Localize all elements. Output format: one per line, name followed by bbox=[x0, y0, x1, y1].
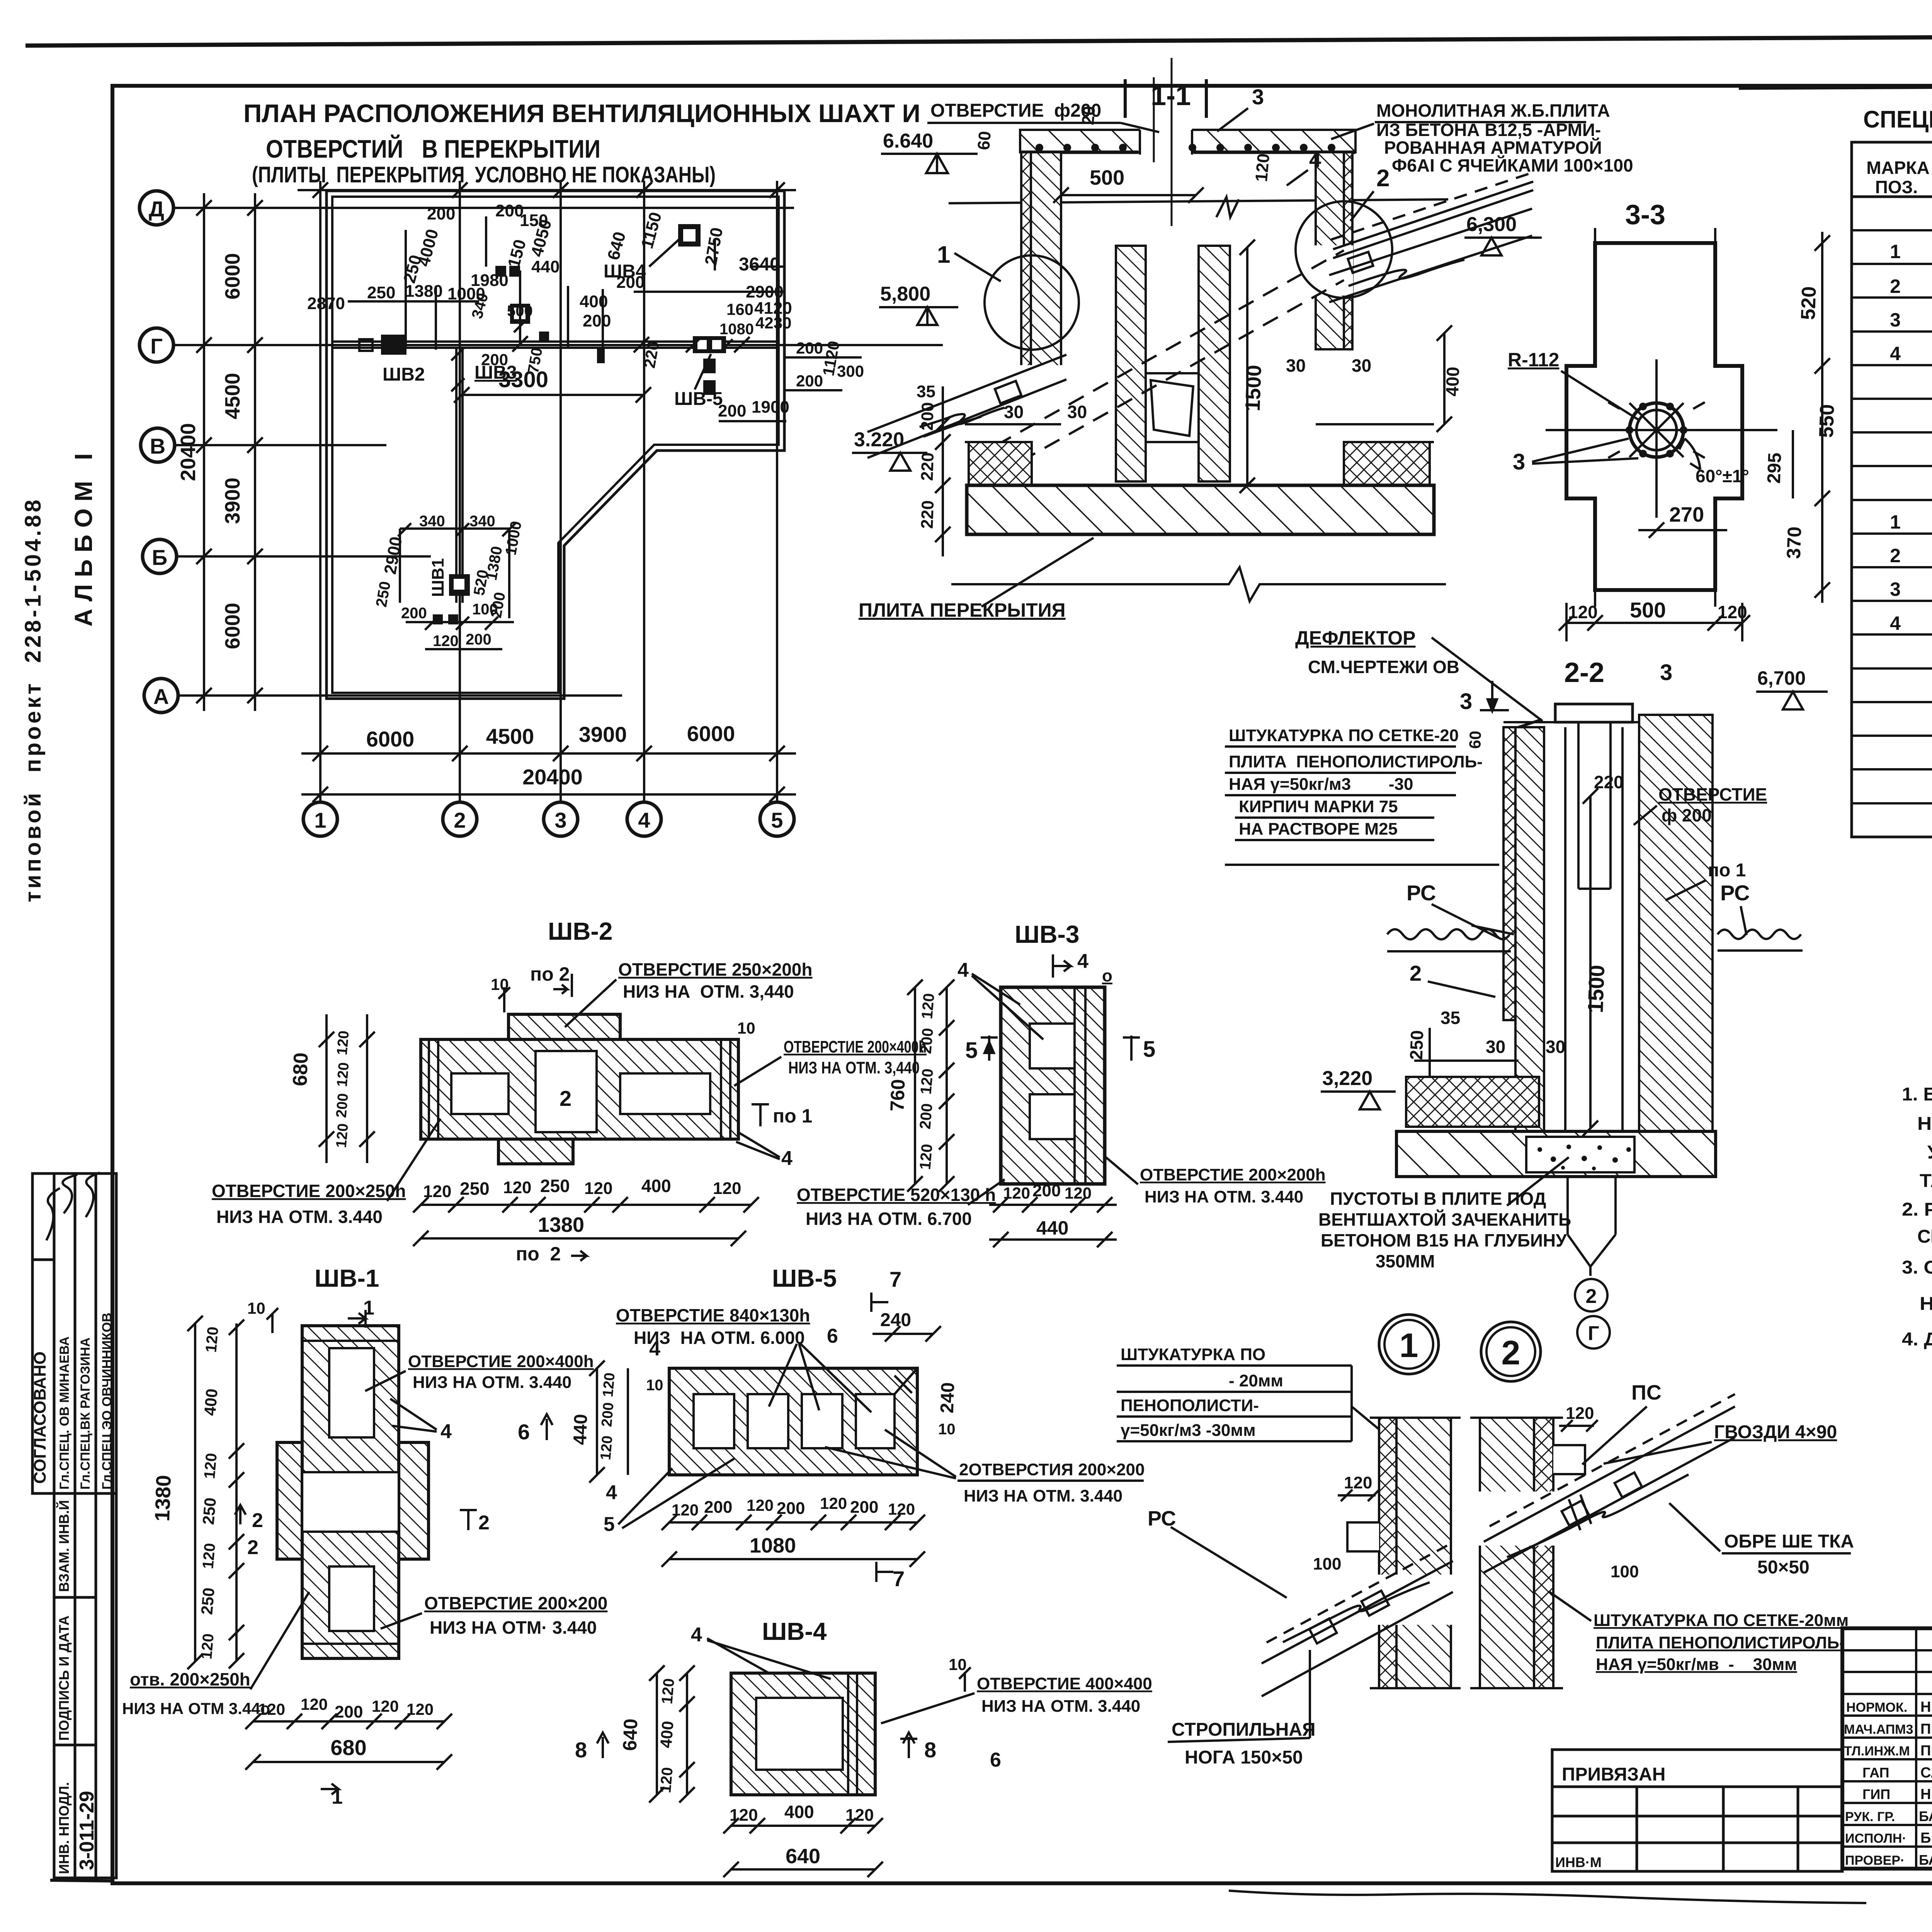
svg-text:5: 5 bbox=[965, 1038, 978, 1063]
svg-text:120: 120 bbox=[845, 1806, 874, 1825]
svg-text:120: 120 bbox=[201, 1452, 220, 1480]
svg-text:120: 120 bbox=[584, 1179, 612, 1198]
svg-text:370: 370 bbox=[1783, 526, 1806, 559]
svg-text:ГИП: ГИП bbox=[1862, 1786, 1890, 1802]
sec1-1 left wall bbox=[1021, 152, 1061, 390]
sec2-2 channel lines bbox=[1544, 715, 1639, 1131]
svg-text:СМ.ЧЕРТЕЖИ ОВ: СМ.ЧЕРТЕЖИ ОВ bbox=[1308, 657, 1459, 677]
svg-text:60: 60 bbox=[1466, 730, 1485, 749]
svg-text:ПРИВЯЗАН: ПРИВЯЗАН bbox=[1562, 1764, 1665, 1785]
svg-text:250: 250 bbox=[197, 1587, 218, 1616]
svg-text:БЕТОНОМ В15 НА ГЛУБИНУ: БЕТОНОМ В15 НА ГЛУБИНУ bbox=[1321, 1230, 1567, 1250]
sec1-1 dashed hidden slope lines bbox=[972, 250, 1344, 489]
svg-text:5,800: 5,800 bbox=[880, 283, 930, 305]
svg-text:6,300: 6,300 bbox=[1466, 213, 1517, 236]
svg-text:7: 7 bbox=[893, 1566, 905, 1591]
sec2-2 left brick wall bbox=[1515, 727, 1544, 1131]
svg-text:1. ВЕНТШАХТЫ ВЫПОЛНЯТЬ ИЗ КИРП: 1. ВЕНТШАХТЫ ВЫПОЛНЯТЬ ИЗ КИРПИЧА ГЛИНЯН… bbox=[1902, 1084, 1932, 1105]
svg-text:6000: 6000 bbox=[221, 603, 244, 649]
svg-text:НЕКЛЮДОВ: НЕКЛЮДОВ bbox=[1920, 1786, 1932, 1803]
svg-text:НИЗ НА ОТМ 3.44о: НИЗ НА ОТМ 3.44о bbox=[122, 1699, 270, 1718]
svg-text:30: 30 bbox=[1486, 1037, 1505, 1057]
svg-text:РС: РС bbox=[1406, 881, 1436, 905]
small opening marks bbox=[433, 266, 716, 624]
svg-text:200: 200 bbox=[796, 372, 823, 390]
axis circles and lines bbox=[139, 191, 178, 713]
svg-text:НОГА 150×50: НОГА 150×50 bbox=[1185, 1747, 1303, 1768]
svg-text:1380: 1380 bbox=[405, 282, 443, 301]
svg-text:6.640: 6.640 bbox=[883, 130, 933, 152]
svg-text:ПИЧУГИН: ПИЧУГИН bbox=[1920, 1721, 1932, 1737]
svg-text:100: 100 bbox=[1611, 1562, 1639, 1581]
svg-text:2. РАЗРЕЗЫ 4-4÷9-9 И ПРОДОЛЖЕН: 2. РАЗРЕЗЫ 4-4÷9-9 И ПРОДОЛЖЕНИЕ СПЕЦИФИ… bbox=[1902, 1199, 1932, 1220]
svg-text:120: 120 bbox=[1252, 153, 1273, 182]
svg-text:3-3: 3-3 bbox=[1625, 199, 1665, 230]
svg-text:ОТВЕРСТИЕ 520×130 h: ОТВЕРСТИЕ 520×130 h bbox=[797, 1185, 996, 1205]
svg-text:400: 400 bbox=[784, 1802, 814, 1822]
svg-text:В: В bbox=[150, 434, 165, 458]
svg-text:ШТУКАТУРКА ПО СЕТКЕ-20мм: ШТУКАТУРКА ПО СЕТКЕ-20мм bbox=[1594, 1611, 1849, 1630]
title block signature columns bbox=[1842, 1628, 1932, 1869]
svg-text:4: 4 bbox=[606, 1481, 617, 1504]
svg-text:по 2: по 2 bbox=[516, 1243, 561, 1265]
svg-text:3640: 3640 bbox=[739, 254, 780, 275]
svg-text:по 1: по 1 bbox=[773, 1105, 812, 1127]
svg-text:по 1: по 1 bbox=[1708, 860, 1746, 881]
detail SHV-3 body bbox=[1001, 987, 1105, 1184]
svg-text:680: 680 bbox=[289, 1052, 313, 1087]
svg-text:20: 20 bbox=[1078, 105, 1099, 126]
sec2-2 top cap bbox=[1503, 704, 1712, 732]
shaft SHV2 mark bbox=[348, 335, 429, 355]
paper crease bbox=[1229, 1891, 1866, 1903]
svg-text:120: 120 bbox=[597, 1435, 616, 1461]
svg-text:4: 4 bbox=[1077, 950, 1088, 973]
column axis lines and circles bbox=[320, 181, 777, 802]
spec table grid bbox=[1852, 142, 1932, 837]
svg-text:120: 120 bbox=[1568, 602, 1598, 622]
svg-text:30: 30 bbox=[1286, 355, 1306, 376]
svg-text:200: 200 bbox=[704, 1498, 732, 1517]
svg-text:500: 500 bbox=[1090, 166, 1124, 189]
detail SHV-2 bottom dims bbox=[413, 1197, 759, 1246]
sec2-2 RS roof right bbox=[1718, 930, 1803, 951]
svg-text:4500: 4500 bbox=[221, 373, 244, 419]
svg-text:3.220: 3.220 bbox=[854, 429, 904, 451]
svg-text:ПОЗ.: ПОЗ. bbox=[1875, 177, 1918, 197]
sec1-1 rafter openings in walls bbox=[1016, 365, 1063, 404]
svg-text:220: 220 bbox=[1594, 772, 1624, 792]
svg-text:НИЗ НА ОТМ. 3.440: НИЗ НА ОТМ. 3.440 bbox=[981, 1697, 1140, 1716]
svg-text:20400: 20400 bbox=[522, 765, 583, 789]
svg-text:120: 120 bbox=[1344, 1473, 1372, 1492]
sec1-1 central opening with flap bbox=[1146, 373, 1199, 442]
svg-text:ШВ2: ШВ2 bbox=[383, 364, 425, 385]
svg-text:ТЛ.ИНЖ.М: ТЛ.ИНЖ.М bbox=[1844, 1744, 1910, 1759]
node1 wall bbox=[1379, 1418, 1451, 1688]
sec2-2 axis circles 2 G bbox=[1575, 1279, 1607, 1311]
svg-text:НИЗ НА ОТМ. 3.440: НИЗ НА ОТМ. 3.440 bbox=[964, 1486, 1122, 1505]
svg-text:ф 200: ф 200 bbox=[1662, 805, 1712, 825]
svg-text:3: 3 bbox=[1890, 309, 1901, 331]
svg-text:ОТВЕРСТИЕ 200×200h: ОТВЕРСТИЕ 200×200h bbox=[1140, 1165, 1326, 1184]
sec1-1 foundation slab bbox=[967, 485, 1434, 534]
svg-text:4. ДЕТАЛИ ПС И РС ПРИМЕНЯТЬ П: 4. ДЕТАЛИ ПС И РС ПРИМЕНЯТЬ ПО ГОСТ 2043… bbox=[1902, 1329, 1932, 1350]
svg-text:ПОДПИСЬ И ДАТА: ПОДПИСЬ И ДАТА bbox=[56, 1616, 72, 1741]
svg-text:3. ОТВЕРСТИЯ В ПЛИТАХ ПЕРЕКРЫТ: 3. ОТВЕРСТИЯ В ПЛИТАХ ПЕРЕКРЫТИЯ ПРОБИТЬ… bbox=[1902, 1257, 1932, 1278]
svg-text:МАЧ.АПМ3: МАЧ.АПМ3 bbox=[1844, 1722, 1913, 1737]
svg-text:120: 120 bbox=[713, 1179, 741, 1198]
svg-text:СОГЛАСОВАНО: СОГЛАСОВАНО bbox=[31, 1351, 49, 1484]
detail SHV-5 body bbox=[669, 1368, 917, 1475]
svg-text:7: 7 bbox=[889, 1267, 901, 1291]
svg-text:60°±1°: 60°±1° bbox=[1696, 466, 1749, 486]
svg-text:240: 240 bbox=[880, 1310, 911, 1330]
svg-text:500: 500 bbox=[507, 303, 533, 320]
svg-text:120: 120 bbox=[600, 1372, 618, 1398]
sec1-1 ceiling line bbox=[949, 197, 1448, 217]
svg-text:250: 250 bbox=[460, 1179, 490, 1199]
svg-text:760: 760 bbox=[886, 1079, 909, 1112]
svg-text:2: 2 bbox=[1586, 1285, 1597, 1308]
svg-text:6: 6 bbox=[827, 1325, 838, 1347]
svg-text:НАЯ γ=50кг/м3 -30: НАЯ γ=50кг/м3 -30 bbox=[1229, 775, 1413, 794]
svg-text:200: 200 bbox=[917, 1103, 936, 1130]
svg-text:2: 2 bbox=[1376, 165, 1389, 192]
svg-text:НОРМОК.: НОРМОК. bbox=[1846, 1700, 1907, 1715]
svg-text:НЕКЛЮДОВ: НЕКЛЮДОВ bbox=[1920, 1699, 1932, 1715]
interior vertical wall axis 2 bbox=[456, 348, 463, 603]
svg-text:440: 440 bbox=[570, 1414, 592, 1446]
svg-text:200: 200 bbox=[599, 1402, 617, 1428]
svg-text:3900: 3900 bbox=[221, 478, 244, 524]
svg-text:35: 35 bbox=[1440, 1008, 1460, 1028]
svg-text:1: 1 bbox=[314, 808, 326, 832]
detail SHV-5 bottom dims bbox=[662, 1515, 925, 1567]
svg-text:2: 2 bbox=[247, 1536, 259, 1559]
sec1-1 ledges and insulation bbox=[965, 424, 1434, 485]
svg-text:ШВ-3: ШВ-3 bbox=[1015, 920, 1079, 948]
svg-text:ОТВЕРСТИЙ В ПЕРЕКРЫТИИ: ОТВЕРСТИЙ В ПЕРЕКРЫТИИ bbox=[266, 134, 600, 163]
svg-text:ПЛИТА ПЕНОПОЛИСТИРОЛЬ-: ПЛИТА ПЕНОПОЛИСТИРОЛЬ- bbox=[1596, 1633, 1845, 1652]
svg-text:340: 340 bbox=[469, 513, 495, 530]
svg-text:СПЕЦИФИКАЦИЯ МАТЕРИАЛА НА ОД: СПЕЦИФИКАЦИЯ МАТЕРИАЛА НА ОДНУ ВЕНТШАХТУ bbox=[1863, 106, 1932, 133]
svg-text:Г: Г bbox=[150, 334, 163, 358]
svg-text:5: 5 bbox=[771, 808, 783, 832]
svg-text:НИЗ НА ОТМ· 3.440: НИЗ НА ОТМ· 3.440 bbox=[430, 1617, 597, 1638]
detail SHV-3 bottom dims bbox=[989, 1197, 1117, 1247]
svg-text:БАРМИНСКАЯ: БАРМИНСКАЯ bbox=[1919, 1808, 1932, 1824]
svg-text:270: 270 bbox=[1669, 503, 1704, 526]
svg-text:200: 200 bbox=[401, 605, 427, 622]
svg-text:4: 4 bbox=[957, 959, 969, 981]
svg-text:Гл.СПЕЦ ЭО ОВЧИННИКОВ: Гл.СПЕЦ ЭО ОВЧИННИКОВ bbox=[100, 1313, 114, 1490]
svg-text:200: 200 bbox=[616, 273, 645, 292]
svg-text:4: 4 bbox=[781, 1147, 793, 1170]
svg-text:120: 120 bbox=[1566, 1404, 1594, 1423]
svg-text:ОТВЕРСТИЕ 200×400h: ОТВЕРСТИЕ 200×400h bbox=[408, 1352, 594, 1371]
svg-text:120: 120 bbox=[1065, 1184, 1092, 1202]
sec2-2 floor slab bbox=[1396, 1131, 1716, 1177]
svg-text:120: 120 bbox=[333, 1123, 351, 1149]
title block outer bbox=[1842, 1628, 1932, 1869]
sec3-3 cross outline bbox=[1566, 243, 1742, 590]
sec1-1 right rafter and sheathing bbox=[1329, 172, 1533, 302]
svg-text:120: 120 bbox=[657, 1767, 676, 1794]
node2 wall bbox=[1480, 1418, 1553, 1688]
svg-text:120: 120 bbox=[301, 1695, 328, 1713]
svg-text:2: 2 bbox=[560, 1086, 571, 1111]
svg-text:250: 250 bbox=[540, 1176, 570, 1196]
svg-text:200: 200 bbox=[850, 1498, 878, 1517]
svg-text:120: 120 bbox=[334, 1062, 352, 1088]
svg-text:4: 4 bbox=[649, 1338, 660, 1360]
svg-text:2: 2 bbox=[1410, 961, 1422, 985]
svg-text:10: 10 bbox=[737, 1019, 755, 1037]
svg-text:БАРМИНСКАЯ: БАРМИНСКАЯ bbox=[1919, 1852, 1932, 1868]
svg-text:1080: 1080 bbox=[719, 321, 754, 338]
svg-text:Д: Д bbox=[149, 197, 164, 221]
sec2-2 RS roof left bbox=[1387, 925, 1514, 951]
shaft SHV4 mark bbox=[678, 224, 701, 247]
detail SHV-4 body bbox=[731, 1673, 875, 1795]
svg-text:ОТВЕРСТИЕ 200×250h: ОТВЕРСТИЕ 200×250h bbox=[212, 1181, 406, 1201]
svg-text:30: 30 bbox=[1546, 1037, 1565, 1057]
svg-text:1380: 1380 bbox=[151, 1475, 175, 1522]
svg-text:3: 3 bbox=[1660, 660, 1672, 685]
sec1-1 break line bbox=[951, 567, 1446, 601]
svg-text:γ=50кг/м3 -30мм: γ=50кг/м3 -30мм bbox=[1121, 1421, 1256, 1440]
privyazan box bbox=[1552, 1750, 1842, 1871]
sec2-2 right massive wall bbox=[1639, 715, 1713, 1131]
svg-text:120: 120 bbox=[433, 633, 459, 650]
sec3-3 right dim chain bbox=[1793, 232, 1830, 603]
svg-text:120: 120 bbox=[747, 1496, 774, 1514]
detail SHV-2 body bbox=[421, 1014, 738, 1164]
svg-text:295: 295 bbox=[1764, 452, 1786, 484]
svg-text:НИЗ НА ОТМ. 3.440: НИЗ НА ОТМ. 3.440 bbox=[216, 1207, 383, 1227]
svg-text:ОТВЕРСТИЕ 840×130h: ОТВЕРСТИЕ 840×130h bbox=[616, 1305, 810, 1325]
svg-text:200: 200 bbox=[427, 204, 455, 223]
svg-text:200: 200 bbox=[1032, 1181, 1061, 1200]
svg-text:6: 6 bbox=[990, 1749, 1001, 1771]
svg-text:ОТВЕРСТИЕ 200×200: ОТВЕРСТИЕ 200×200 bbox=[424, 1593, 607, 1613]
svg-text:120: 120 bbox=[917, 1143, 936, 1170]
svg-text:ПЕНОПОЛИСТИ-: ПЕНОПОЛИСТИ- bbox=[1121, 1396, 1259, 1415]
svg-text:1: 1 bbox=[1400, 1326, 1418, 1364]
svg-text:10: 10 bbox=[938, 1421, 956, 1438]
svg-text:по 2: по 2 bbox=[530, 963, 570, 985]
svg-text:6000: 6000 bbox=[687, 721, 735, 746]
svg-text:2: 2 bbox=[1890, 276, 1901, 297]
svg-text:30: 30 bbox=[1067, 402, 1087, 422]
svg-text:НАЯ γ=50кг/мв - 30мм: НАЯ γ=50кг/мв - 30мм bbox=[1596, 1655, 1797, 1674]
left dimension chain bbox=[196, 193, 263, 711]
shaft SHV1 mark bbox=[449, 574, 470, 596]
svg-text:120: 120 bbox=[202, 1326, 222, 1353]
svg-text:ПС: ПС bbox=[1631, 1381, 1662, 1404]
svg-text:ДЕФЛЕКТОР: ДЕФЛЕКТОР bbox=[1295, 627, 1415, 649]
svg-text:МАРКА: МАРКА bbox=[1866, 158, 1930, 178]
svg-text:30: 30 bbox=[1004, 402, 1024, 422]
svg-text:ГВОЗДИ 4×90: ГВОЗДИ 4×90 bbox=[1714, 1422, 1837, 1442]
building outline outer bbox=[327, 191, 784, 699]
plan extra tick marks and stubs bbox=[298, 182, 862, 649]
svg-text:Гл.СПЕЦ. ОВ МИНАЕВА: Гл.СПЕЦ. ОВ МИНАЕВА bbox=[57, 1337, 72, 1490]
svg-text:3,220: 3,220 bbox=[1322, 1067, 1372, 1090]
svg-text:4: 4 bbox=[638, 808, 650, 832]
svg-text:10: 10 bbox=[646, 1377, 663, 1394]
svg-text:10: 10 bbox=[949, 1655, 967, 1673]
dim 3300 bbox=[462, 394, 643, 396]
svg-text:РУК. ГР.: РУК. ГР. bbox=[1845, 1810, 1895, 1824]
sec1-1 top slab bbox=[1020, 58, 1355, 226]
svg-text:БЕЙМ: БЕЙМ bbox=[1920, 1829, 1932, 1846]
svg-text:120: 120 bbox=[406, 1700, 434, 1718]
sec1-1 callout circles bbox=[985, 255, 1079, 350]
svg-text:200: 200 bbox=[918, 402, 938, 431]
sec2-2 funnel below slab bbox=[1568, 1177, 1616, 1276]
svg-text:440: 440 bbox=[1036, 1217, 1068, 1239]
svg-text:3: 3 bbox=[554, 808, 566, 832]
node callout circle 1 bbox=[1379, 1315, 1439, 1374]
svg-text:4: 4 bbox=[691, 1624, 702, 1646]
svg-text:120: 120 bbox=[1003, 1184, 1030, 1202]
svg-text:200: 200 bbox=[718, 401, 746, 420]
svg-text:640: 640 bbox=[619, 1718, 642, 1751]
svg-text:1: 1 bbox=[1890, 511, 1901, 533]
svg-text:ШВ-4: ШВ-4 bbox=[762, 1617, 827, 1645]
svg-text:120: 120 bbox=[199, 1543, 219, 1570]
svg-text:ПУСТОТЫ В ПЛИТЕ ПОД: ПУСТОТЫ В ПЛИТЕ ПОД bbox=[1330, 1189, 1546, 1209]
page number box 28 bbox=[1739, 38, 1932, 88]
svg-text:50×50: 50×50 bbox=[1757, 1557, 1810, 1578]
node1 rafter bbox=[1262, 1546, 1453, 1696]
svg-text:ПЛИТА ПЕРЕКРЫТИЯ: ПЛИТА ПЕРЕКРЫТИЯ bbox=[859, 599, 1066, 621]
svg-text:РОВАННАЯ АРМАТУРОЙ: РОВАННАЯ АРМАТУРОЙ bbox=[1384, 138, 1602, 158]
svg-text:3: 3 bbox=[1890, 578, 1901, 600]
bottom dimension chain bbox=[301, 746, 796, 802]
svg-text:ОБРЕ ШЕ ТКА: ОБРЕ ШЕ ТКА bbox=[1724, 1531, 1854, 1552]
svg-text:2: 2 bbox=[478, 1512, 490, 1534]
svg-text:САБО: САБО bbox=[1920, 1765, 1932, 1781]
svg-text:КИРПИЧ МАРКИ 75: КИРПИЧ МАРКИ 75 bbox=[1239, 797, 1398, 816]
svg-text:440: 440 bbox=[531, 257, 560, 276]
svg-text:120: 120 bbox=[658, 1678, 678, 1705]
svg-text:2870: 2870 bbox=[307, 294, 345, 313]
svg-text:ИСПОЛН·: ИСПОЛН· bbox=[1845, 1831, 1906, 1846]
svg-text:340: 340 bbox=[419, 513, 445, 530]
signatures squiggles group1 bbox=[46, 1173, 100, 1240]
svg-text:1900: 1900 bbox=[752, 398, 789, 417]
svg-text:120: 120 bbox=[423, 1182, 451, 1201]
svg-text:4500: 4500 bbox=[486, 724, 534, 748]
svg-text:ШВ-2: ШВ-2 bbox=[548, 917, 612, 945]
svg-text:3-011-29: 3-011-29 bbox=[76, 1791, 98, 1870]
svg-text:200: 200 bbox=[583, 311, 611, 330]
svg-text:240: 240 bbox=[937, 1382, 959, 1414]
svg-text:Б: Б bbox=[152, 545, 167, 570]
svg-text:Гл.СПЕЦ.ВК РАГОЗИНА: Гл.СПЕЦ.ВК РАГОЗИНА bbox=[78, 1337, 93, 1490]
svg-text:4: 4 bbox=[440, 1420, 452, 1443]
svg-text:ГАП: ГАП bbox=[1862, 1765, 1889, 1781]
svg-text:АЛЬБОМ I: АЛЬБОМ I bbox=[70, 446, 97, 627]
svg-text:5: 5 bbox=[1143, 1037, 1155, 1062]
detail SHV-1 bottom dims bbox=[245, 1714, 452, 1770]
svg-text:120: 120 bbox=[503, 1178, 531, 1197]
svg-text:3: 3 bbox=[1460, 689, 1472, 714]
svg-text:ОТВЕРСТИЕ ф200: ОТВЕРСТИЕ ф200 bbox=[930, 100, 1101, 121]
svg-text:ОТВЕРСТИЕ 250×200h: ОТВЕРСТИЕ 250×200h bbox=[618, 959, 812, 980]
svg-text:500: 500 bbox=[1630, 598, 1666, 622]
svg-text:ШВ-5: ШВ-5 bbox=[772, 1264, 837, 1292]
sec2-2 insulation block bbox=[1406, 1077, 1539, 1127]
svg-text:120: 120 bbox=[258, 1700, 285, 1718]
node2 rafter opening bbox=[1478, 1492, 1557, 1546]
svg-text:8: 8 bbox=[924, 1738, 936, 1762]
svg-text:ОТВЕРСТИЕ 200×400h: ОТВЕРСТИЕ 200×400h bbox=[784, 1037, 927, 1056]
svg-text:4: 4 bbox=[1890, 343, 1901, 364]
svg-text:2: 2 bbox=[1890, 545, 1901, 566]
svg-text:3: 3 bbox=[1513, 449, 1525, 474]
svg-text:400: 400 bbox=[580, 292, 608, 311]
detail SHV-4 bottom dims bbox=[723, 1818, 883, 1877]
svg-text:250: 250 bbox=[367, 283, 395, 302]
svg-text:300: 300 bbox=[837, 362, 864, 380]
svg-text:2: 2 bbox=[1502, 1333, 1520, 1372]
svg-text:СТРОПИЛЬНАЯ: СТРОПИЛЬНАЯ bbox=[1172, 1719, 1316, 1740]
svg-text:ОТВЕРСТИЕ 400×400: ОТВЕРСТИЕ 400×400 bbox=[977, 1674, 1152, 1693]
svg-text:НИЗ НА ОТМ. 3.440: НИЗ НА ОТМ. 3.440 bbox=[1145, 1187, 1303, 1206]
left stamp table group 1 (soglasovano) bbox=[32, 1173, 116, 1493]
svg-text:2ОТВЕРСТИЯ 200×200: 2ОТВЕРСТИЯ 200×200 bbox=[959, 1460, 1145, 1479]
svg-text:120: 120 bbox=[917, 1068, 937, 1095]
svg-text:Ф6АI С ЯЧЕЙКАМИ 100×100: Ф6АI С ЯЧЕЙКАМИ 100×100 bbox=[1392, 155, 1633, 175]
svg-text:8: 8 bbox=[575, 1738, 587, 1762]
svg-text:2: 2 bbox=[252, 1509, 263, 1532]
interior wall along axis G bbox=[332, 342, 779, 348]
svg-text:250: 250 bbox=[1406, 1030, 1427, 1060]
svg-text:4: 4 bbox=[1309, 147, 1321, 172]
svg-text:5: 5 bbox=[604, 1513, 615, 1536]
svg-text:100: 100 bbox=[1313, 1554, 1341, 1573]
svg-text:680: 680 bbox=[330, 1735, 366, 1760]
svg-text:ИНВ. НПОДЛ.: ИНВ. НПОДЛ. bbox=[56, 1782, 72, 1874]
svg-text:550: 550 bbox=[1815, 404, 1839, 438]
svg-text:1500: 1500 bbox=[1241, 364, 1266, 412]
svg-text:20400: 20400 bbox=[177, 423, 200, 481]
svg-text:120: 120 bbox=[372, 1697, 399, 1715]
svg-text:120: 120 bbox=[334, 1030, 352, 1056]
svg-text:120: 120 bbox=[820, 1494, 847, 1512]
svg-text:ТАМИ γ=50кг/м³ С ПОСЛЕДУЮЩЕЙ Ш: ТАМИ γ=50кг/м³ С ПОСЛЕДУЮЩЕЙ ШТУКАТУРКОЙ… bbox=[1920, 1170, 1932, 1191]
svg-text:ВЗАМ. ИНВ.Й: ВЗАМ. ИНВ.Й bbox=[56, 1500, 72, 1592]
shaft SHV3 mark bbox=[510, 270, 530, 344]
svg-text:200: 200 bbox=[917, 1027, 937, 1054]
svg-text:НЕ НАРУШАЯ НЕСУЩИХ РЕБЕР ПЛИТ.: НЕ НАРУШАЯ НЕСУЩИХ РЕБЕР ПЛИТ. bbox=[1920, 1294, 1932, 1314]
svg-text:Г: Г bbox=[1588, 1322, 1599, 1345]
svg-text:3900: 3900 bbox=[579, 722, 627, 747]
svg-text:4: 4 bbox=[1890, 612, 1901, 634]
svg-text:120: 120 bbox=[672, 1501, 699, 1519]
svg-text:220: 220 bbox=[918, 500, 938, 529]
svg-text:СМ. ЛИСТ 27.: СМ. ЛИСТ 27. bbox=[1917, 1226, 1932, 1247]
svg-text:УТЕПЛИТЬ ПО ПЕРИМЕТРУ ПЕНОПОЛИ: УТЕПЛИТЬ ПО ПЕРИМЕТРУ ПЕНОПОЛИСТИРОЛЬНОГ… bbox=[1927, 1142, 1932, 1163]
svg-text:350ММ: 350ММ bbox=[1376, 1251, 1435, 1271]
sec1-1 rebar dots bbox=[1036, 144, 1335, 151]
svg-text:ВЕНТШАХТОЙ ЗАЧЕКАНИТЬ: ВЕНТШАХТОЙ ЗАЧЕКАНИТЬ bbox=[1318, 1209, 1571, 1230]
svg-text:200: 200 bbox=[481, 350, 508, 369]
